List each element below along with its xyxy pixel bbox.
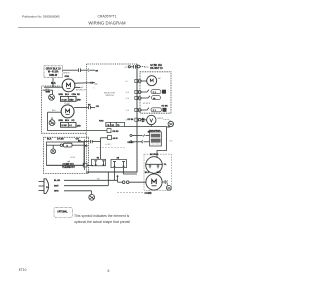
power cord plug box (dashed) — [44, 66, 62, 78]
outer dashed enclosure left — [42, 86, 87, 133]
wire bottom run — [48, 130, 107, 132]
svg-text:W • N 15A: W • N 15A — [48, 71, 59, 74]
svg-text:GRAY BLK 15: GRAY BLK 15 — [46, 67, 62, 70]
dashed control panel boundary top — [87, 63, 138, 65]
svg-text:SWITCH: SWITCH — [106, 95, 115, 97]
svg-text:BLK: BLK — [51, 83, 56, 85]
svg-text:GRN W: GRN W — [63, 72, 70, 74]
wire to fan motor — [44, 86, 62, 88]
capacitor row C4 — [138, 97, 141, 100]
svg-text:BLK: BLK — [145, 172, 150, 174]
fan motor FM — [147, 76, 157, 86]
svg-text:BLU: BLU — [65, 94, 70, 96]
svg-text:✓× NC ⌞: ✓× NC ⌞ — [105, 143, 112, 146]
svg-text:6: 6 — [108, 269, 110, 273]
svg-text:BRN: BRN — [59, 120, 64, 122]
svg-text:GY 13A: GY 13A — [125, 66, 132, 69]
svg-text:RD RD: RD RD — [113, 131, 120, 133]
svg-text:BK WH X: BK WH X — [150, 154, 159, 156]
svg-text:)(RD: )(RD — [77, 125, 82, 127]
svg-text:optional,the actual shape that: optional,the actual shape that prevail — [74, 220, 130, 224]
svg-text:HTR: HTR — [144, 67, 149, 69]
wire to defrost device — [47, 144, 61, 146]
svg-text:GY.BK 15A: GY.BK 15A — [150, 64, 162, 67]
thermostat box — [47, 142, 85, 165]
wire to ground G2 — [51, 117, 53, 120]
compressor dotted enclosure — [144, 154, 171, 190]
power plug — [39, 181, 45, 183]
svg-text:COMP.: COMP. — [145, 193, 153, 195]
wire plug box to selector box — [62, 69, 78, 71]
compressor motor — [146, 174, 162, 190]
wire L1 — [64, 179, 118, 181]
fan motor FM row — [138, 80, 141, 83]
ground G2 — [49, 120, 55, 126]
svg-text:RD BK: RD BK — [162, 105, 169, 107]
ground G4 — [168, 121, 173, 126]
wire from plug box down — [52, 78, 54, 88]
lamp symbol — [52, 145, 54, 149]
fan motor M1 — [62, 79, 75, 92]
connector marks — [90, 82, 92, 84]
svg-text:WIRING DIAGRAM: WIRING DIAGRAM — [88, 21, 126, 26]
wires motor M1 to switch box — [75, 82, 95, 85]
svg-text:CRA057PT1: CRA057PT1 — [97, 14, 116, 18]
wire to relay box — [87, 164, 93, 166]
vertical wires through thermostat area — [84, 140, 86, 171]
wire motor M2 left — [48, 111, 62, 113]
wire with connectors to compressor — [118, 181, 123, 183]
wire from device to box edge — [72, 144, 84, 146]
relay box TB — [92, 159, 106, 166]
wire N — [64, 185, 108, 187]
svg-text:BLU: BLU — [65, 120, 70, 122]
svg-text:BL-BK: BL-BK — [54, 180, 61, 182]
svg-text:OPTIONAL: OPTIONAL — [57, 210, 68, 213]
vent motor V — [147, 115, 156, 124]
disconnect plug symbol — [45, 89, 47, 92]
svg-text:HI 1M: HI 1M — [62, 99, 67, 101]
svg-text:1○Θ: 1○Θ — [126, 110, 130, 112]
wire motor M2 right to box — [74, 107, 88, 109]
transformer feed terminals — [130, 135, 132, 137]
svg-text:GY-BK: GY-BK — [57, 139, 64, 141]
svg-text:MED: MED — [69, 99, 74, 101]
thermostat dashed enclosure — [44, 137, 89, 173]
wire ground green — [64, 190, 92, 192]
svg-text:OR: OR — [96, 106, 100, 108]
svg-text:GRN: GRN — [54, 191, 59, 193]
svg-text:)(RD: )(RD — [77, 99, 82, 101]
wire to ground — [52, 90, 54, 94]
svg-text:BRN: BRN — [59, 94, 64, 96]
svg-text:COOL: COOL — [70, 157, 75, 159]
terminal square RD — [107, 129, 111, 133]
dashed lead to ground G4 — [164, 120, 171, 122]
svg-text:RD BL: RD BL — [128, 119, 135, 121]
svg-text:3○Θ: 3○Θ — [126, 92, 130, 94]
terminal square AS-W — [108, 136, 112, 140]
svg-text:THERMOST: THERMOST — [62, 167, 75, 169]
svg-text:BLK/RD GY: BLK/RD GY — [76, 90, 87, 92]
terminal board flat box — [106, 122, 125, 126]
run capacitor lead — [162, 181, 165, 183]
svg-text:4+○: 4+○ — [126, 81, 129, 83]
svg-text:Publication No: 5995508065: Publication No: 5995508065 — [22, 15, 60, 19]
transformer T1 — [150, 132, 162, 146]
svg-text:BK-WHT 15: BK-WHT 15 — [150, 68, 163, 70]
thermostat dense label — [47, 164, 84, 166]
relay drop wires — [114, 168, 116, 181]
capacitor row C5 — [138, 109, 141, 112]
heater row terminal — [137, 65, 140, 68]
svg-text:ORN: ORN — [72, 94, 77, 96]
dotted lead to compressor label — [117, 192, 144, 194]
wire V to transformer — [150, 125, 152, 127]
svg-text:0○: 0○ — [126, 120, 128, 122]
terminal square on box edge — [83, 163, 87, 167]
svg-text:ET10: ET10 — [19, 268, 27, 272]
capacitor row C3 — [138, 91, 141, 94]
svg-text:4X XX X: 4X XX X — [143, 103, 151, 105]
terminal stubs inside box edge — [95, 83, 98, 85]
header rule — [18, 26, 200, 28]
defrost device — [60, 144, 62, 146]
svg-text:GRN: GRN — [46, 91, 51, 93]
svg-text:FM: FM — [158, 78, 161, 80]
note optional symbol box — [54, 207, 72, 217]
relay box SB — [111, 160, 127, 168]
svg-text:BLU: BLU — [157, 172, 162, 174]
svg-text:BLK: BLK — [47, 139, 52, 141]
svg-text:P.RD: P.RD — [99, 120, 104, 122]
terminal blocks on selector edge — [135, 79, 138, 82]
run capacitor block C1 — [61, 96, 77, 101]
svg-text:x: x — [94, 88, 95, 90]
vent motor feed terminal — [139, 119, 141, 121]
ground G3 — [89, 194, 95, 200]
svg-text:WHT: WHT — [54, 185, 59, 187]
optional dashed box right — [140, 72, 171, 113]
svg-text:TRNSFRMR: TRNSFRMR — [149, 130, 161, 132]
svg-text:AS-W: AS-W — [113, 137, 118, 140]
overload protector OL — [146, 157, 163, 174]
wire terminal board to transformer — [125, 126, 167, 128]
svg-text:BRN X: BRN X — [158, 118, 165, 120]
svg-text:BRN-W: BRN-W — [49, 75, 58, 77]
svg-text:GRN: GRN — [65, 76, 70, 78]
ground G1 — [49, 94, 55, 100]
selector switch box — [87, 64, 138, 172]
svg-text:This symbol indicates the elem: This symbol indicates the element is — [74, 214, 129, 218]
run capacitor block C2 — [61, 122, 77, 127]
dashed control panel boundary left — [86, 64, 88, 174]
grommet — [167, 184, 168, 186]
compressor fan motor M2 — [61, 105, 74, 118]
svg-text:HI 2M: HI 2M — [62, 125, 67, 127]
top edge capacitor marks — [128, 66, 130, 68]
svg-text:2○Θ: 2○Θ — [126, 98, 130, 100]
